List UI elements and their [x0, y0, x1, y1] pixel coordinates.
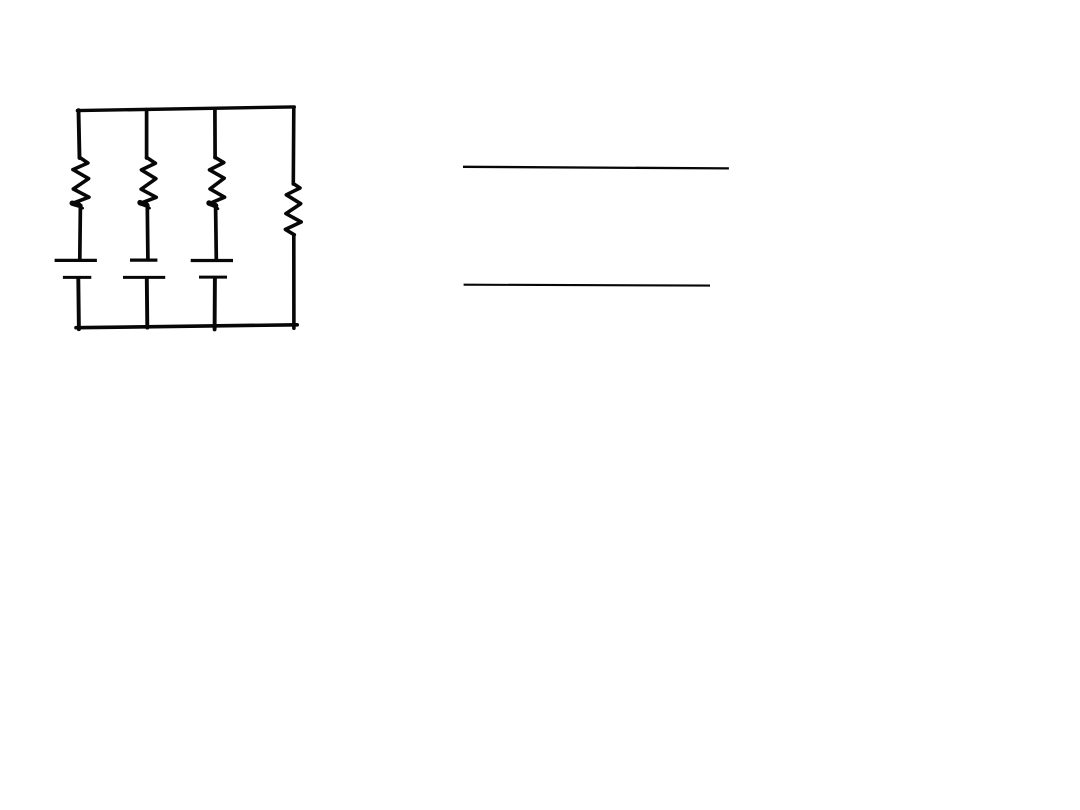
- wire top bus: [77, 107, 294, 111]
- wire branch3 resistor-to-battery: [214, 206, 218, 258]
- resistor R1: [72, 157, 89, 208]
- wire branch2 resistor-to-battery: [145, 206, 149, 259]
- wire branch3 top: [213, 109, 217, 157]
- wire branch1 bottom: [76, 279, 80, 330]
- wire branch2 bottom: [145, 279, 149, 328]
- wire bottom bus: [76, 325, 297, 328]
- battery V1: [55, 260, 97, 277]
- wire branch4 top: [291, 108, 295, 184]
- wire branch4 bottom: [292, 235, 296, 328]
- resistor R2: [140, 157, 157, 208]
- resistor R4: [285, 184, 301, 235]
- answer line 1: [463, 167, 729, 169]
- battery V2: [123, 260, 165, 277]
- resistor R3: [209, 157, 225, 208]
- wire branch1 top: [79, 110, 80, 158]
- wire branch1 resistor-to-battery: [78, 206, 82, 259]
- answer line 2: [464, 284, 710, 287]
- wire branch2 top: [145, 110, 149, 158]
- wire branch3 bottom: [213, 278, 217, 329]
- battery V3: [191, 261, 233, 278]
